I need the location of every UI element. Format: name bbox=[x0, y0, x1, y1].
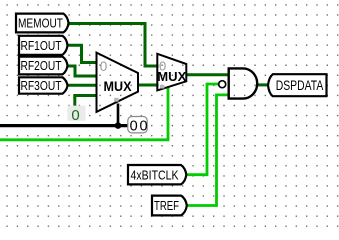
select pin marker of mux U2 bbox=[160, 85, 165, 89]
input flag RF3OUT bbox=[19, 77, 68, 93]
input flag TREF bbox=[152, 196, 187, 216]
and-gate U3 bbox=[229, 68, 257, 98]
wire MUX U2 output to AND gate U3 input A bbox=[186, 73, 229, 76]
select pin marker of mux U1 bbox=[114, 98, 119, 102]
wire 4xBITCLK to AND gate U3 inverted input B bbox=[186, 84, 219, 175]
wire MEMOUT to MUX U2 input 0 bbox=[69, 24, 159, 67]
input flag RF1OUT bbox=[19, 36, 68, 55]
bus value label 00 bbox=[128, 117, 150, 135]
svg-text:TREF: TREF bbox=[154, 198, 179, 213]
input flag RF2OUT bbox=[19, 57, 68, 75]
constant 0 on MUX U1 input 3 bbox=[67, 106, 85, 125]
input flag MEMOUT bbox=[16, 14, 69, 33]
svg-text:RF2OUT: RF2OUT bbox=[21, 58, 62, 73]
svg-text:00: 00 bbox=[130, 119, 150, 135]
wire AND gate U3 output to DSPDATA bbox=[257, 83, 269, 86]
mux U2 (2-input MUX) bbox=[157, 54, 186, 91]
wire RF1OUT to MUX U1 input 0 bbox=[66, 45, 98, 62]
output flag DSPDATA bbox=[268, 74, 327, 96]
wire constant 0 to MUX U1 input 3 bbox=[75, 96, 98, 107]
inversion bubble on U3 input B bbox=[219, 81, 226, 88]
svg-text:0: 0 bbox=[159, 59, 166, 74]
input flag 4xBITCLK bbox=[128, 165, 186, 184]
svg-text:RF3OUT: RF3OUT bbox=[21, 78, 62, 93]
svg-text:4xBITCLK: 4xBITCLK bbox=[131, 167, 179, 182]
junction on bus bbox=[115, 122, 122, 129]
wire RF3OUT to MUX U1 input 2 bbox=[66, 84, 98, 87]
svg-text:MUX: MUX bbox=[104, 78, 133, 94]
mux U1 (4-input MUX) bbox=[97, 53, 139, 112]
svg-text:0: 0 bbox=[100, 59, 108, 74]
wire bus from left edge to value 00 bbox=[0, 124, 130, 127]
wire MUX U1 select bbox=[117, 104, 120, 126]
wire MUX U1 output to MUX U2 input 1 bbox=[138, 84, 159, 87]
wire MUX U2 select to left edge bbox=[0, 87, 168, 140]
wire RF2OUT to MUX U1 input 1 bbox=[66, 66, 98, 76]
wire TREF to AND gate U3 input C bbox=[187, 95, 229, 206]
svg-text:MEMOUT: MEMOUT bbox=[18, 16, 63, 31]
svg-text:DSPDATA: DSPDATA bbox=[276, 77, 324, 93]
svg-text:RF1OUT: RF1OUT bbox=[21, 38, 62, 53]
svg-text:0: 0 bbox=[71, 107, 79, 124]
